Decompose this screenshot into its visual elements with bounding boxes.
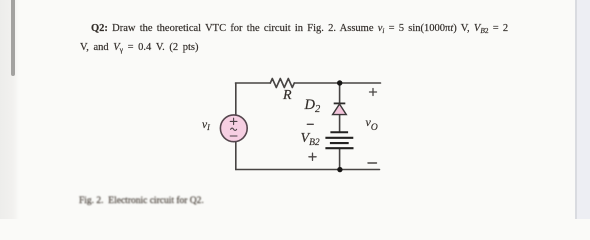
node bottom junction: [337, 167, 342, 172]
wire diode branch upper: [339, 83, 341, 103]
question text line 1: [91, 24, 508, 34]
output minus sign: [368, 162, 377, 164]
left page-edge strip: [0, 0, 19, 219]
wire left vertical upper: [235, 83, 237, 116]
wire top-left horizontal: [236, 82, 271, 84]
question text line 2: [80, 43, 198, 53]
right cool strip: [577, 0, 590, 219]
resistor R: [270, 79, 294, 88]
figure caption: [79, 197, 204, 206]
wire diode-to-battery: [339, 115, 341, 132]
wire battery-to-bottom: [339, 148, 341, 169]
left gray bar: [11, 0, 15, 76]
battery VB2: [325, 132, 353, 148]
label vO: [366, 117, 378, 130]
wire top middle to output: [294, 82, 380, 84]
wire left vertical lower: [235, 142, 237, 170]
label R: [283, 89, 292, 102]
node top junction: [337, 80, 342, 85]
label vi: [202, 120, 210, 131]
label VB2: [301, 132, 320, 147]
wire bottom: [236, 169, 380, 171]
battery minus label: [307, 123, 313, 125]
battery plus label: [309, 153, 316, 160]
output plus sign: [370, 89, 377, 96]
source vi: [220, 115, 247, 142]
right page boundary line: [575, 0, 577, 219]
diode D2: [333, 103, 347, 114]
label D2: [305, 99, 321, 113]
